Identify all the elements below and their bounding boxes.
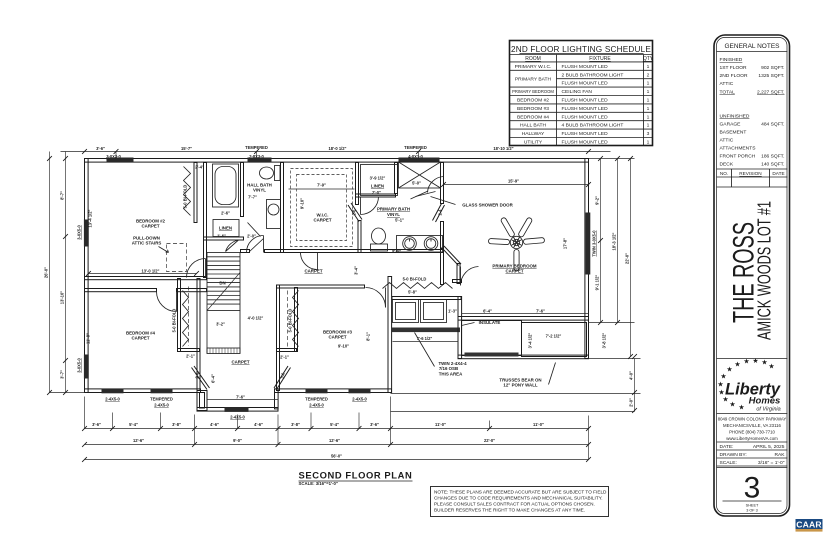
svg-text:BUILDER RESERVES THE RIGHT TO: BUILDER RESERVES THE RIGHT TO MAKE CHANG…: [434, 508, 585, 513]
svg-text:CARPET: CARPET: [231, 360, 249, 365]
svg-text:DATE: DATE: [772, 171, 784, 176]
svg-text:2ND FLOOR LIGHTING SCHEDULE: 2ND FLOOR LIGHTING SCHEDULE: [511, 45, 651, 54]
svg-text:FLUSH MOUNT LED: FLUSH MOUNT LED: [562, 98, 609, 104]
svg-text:18'-0 1/2": 18'-0 1/2": [329, 146, 347, 151]
svg-text:2-4X5-0: 2-4X5-0: [154, 403, 169, 408]
svg-text:3'-9 1/2": 3'-9 1/2": [370, 176, 386, 181]
svg-text:11'-0": 11'-0": [435, 422, 446, 427]
svg-text:SECOND FLOOR PLAN: SECOND FLOOR PLAN: [299, 470, 413, 481]
svg-text:RAK: RAK: [774, 452, 785, 458]
svg-text:7'-6": 7'-6": [236, 395, 245, 400]
svg-text:★: ★: [718, 389, 724, 397]
svg-text:CAAR: CAAR: [796, 520, 822, 530]
svg-text:6'-4": 6'-4": [211, 374, 216, 383]
svg-text:CARPET: CARPET: [328, 335, 346, 340]
svg-text:4'-6": 4'-6": [254, 422, 263, 427]
svg-text:9'-0": 9'-0": [233, 438, 242, 443]
svg-text:2 BULB BATHROOM LIGHT: 2 BULB BATHROOM LIGHT: [562, 72, 624, 78]
svg-text:11'-0": 11'-0": [533, 422, 544, 427]
svg-text:DATE:: DATE:: [720, 444, 734, 450]
svg-text:2,227 SQFT.: 2,227 SQFT.: [757, 90, 784, 96]
svg-text:3-0X5-0: 3-0X5-0: [77, 358, 82, 373]
svg-text:2'-0": 2'-0": [629, 398, 634, 407]
svg-text:AMICK WOODS LOT #1: AMICK WOODS LOT #1: [754, 201, 775, 340]
svg-text:1: 1: [647, 123, 650, 129]
svg-text:13'-10": 13'-10": [60, 291, 65, 304]
svg-text:902 SQFT.: 902 SQFT.: [761, 65, 784, 71]
svg-text:★: ★: [743, 358, 749, 366]
svg-text:ATTIC: ATTIC: [720, 138, 734, 144]
svg-text:7/16 OSB: 7/16 OSB: [439, 366, 458, 371]
svg-text:9'-10": 9'-10": [300, 198, 305, 209]
svg-text:11'-8": 11'-8": [86, 333, 91, 344]
svg-text:5'-4": 5'-4": [330, 422, 339, 427]
svg-text:3'-8": 3'-8": [172, 422, 181, 427]
svg-text:FLUSH MOUNT LED: FLUSH MOUNT LED: [562, 131, 609, 137]
svg-text:GARAGE: GARAGE: [720, 122, 742, 128]
svg-text:3: 3: [744, 472, 761, 505]
svg-text:13'-4 1/2": 13'-4 1/2": [88, 209, 93, 227]
svg-text:CARPET: CARPET: [141, 224, 159, 229]
svg-text:INSULATE: INSULATE: [479, 320, 501, 325]
svg-text:TWIN 3-0X5-0: TWIN 3-0X5-0: [592, 230, 597, 257]
svg-text:VINYL: VINYL: [253, 188, 266, 193]
svg-text:1: 1: [647, 64, 650, 70]
svg-text:2'-0": 2'-0": [372, 190, 381, 195]
svg-text:4'-0": 4'-0": [629, 371, 634, 380]
svg-text:9'-10": 9'-10": [338, 344, 349, 349]
svg-text:56'-0": 56'-0": [331, 454, 342, 459]
svg-text:2-6: 2-6: [195, 372, 200, 379]
svg-text:2-4X5-0: 2-4X5-0: [352, 397, 367, 402]
svg-text:DRAWN BY:: DRAWN BY:: [720, 452, 747, 458]
svg-text:2-4: 2-4: [438, 209, 443, 216]
svg-text:5-0 BI-FOLD: 5-0 BI-FOLD: [403, 277, 427, 282]
svg-text:5-0 BI-FOLD: 5-0 BI-FOLD: [288, 309, 293, 333]
svg-text:5'-4": 5'-4": [129, 422, 138, 427]
svg-text:ATTIC STAIRS: ATTIC STAIRS: [132, 241, 162, 246]
svg-text:BEDROOM #3: BEDROOM #3: [517, 106, 549, 112]
svg-text:1ST FLOOR: 1ST FLOOR: [720, 65, 748, 71]
svg-text:GLASS SHOWER DOOR: GLASS SHOWER DOOR: [462, 203, 513, 208]
svg-text:8049 CROWN COLONY PARKWAY: 8049 CROWN COLONY PARKWAY: [718, 417, 787, 422]
svg-text:3/16" = 1'-0": 3/16" = 1'-0": [758, 460, 785, 466]
svg-text:VINYL: VINYL: [387, 212, 400, 217]
svg-text:18'-10 1/2": 18'-10 1/2": [493, 146, 513, 151]
svg-text:UNFINISHED: UNFINISHED: [720, 114, 750, 120]
svg-text:4-0X1-0: 4-0X1-0: [408, 154, 423, 159]
svg-text:ATTIC: ATTIC: [720, 81, 734, 87]
svg-text:NOTE: THESE PLANS ARE DEEMED A: NOTE: THESE PLANS ARE DEEMED ACCURATE BU…: [434, 490, 607, 495]
svg-text:ATTACHMENTS: ATTACHMENTS: [720, 146, 757, 152]
svg-text:1325 SQFT.: 1325 SQFT.: [758, 73, 784, 79]
svg-text:22'-0": 22'-0": [484, 438, 495, 443]
svg-text:BEDROOM #2: BEDROOM #2: [517, 98, 549, 104]
svg-text:★: ★: [717, 381, 723, 389]
svg-text:9'-2": 9'-2": [595, 196, 600, 205]
svg-text:8'-0": 8'-0": [392, 249, 401, 254]
svg-text:FINISHED: FINISHED: [720, 57, 743, 63]
svg-text:DN: DN: [219, 281, 225, 286]
svg-text:MECHANICSVILLE, VA 23116: MECHANICSVILLE, VA 23116: [723, 423, 781, 428]
svg-text:QTY: QTY: [643, 56, 654, 62]
svg-text:FLUSH MOUNT LED: FLUSH MOUNT LED: [562, 106, 609, 112]
svg-text:HALLWAY: HALLWAY: [522, 131, 545, 137]
svg-text:3'-8": 3'-8": [291, 422, 300, 427]
svg-text:3-0X3-0: 3-0X3-0: [106, 154, 121, 159]
svg-text:DECK: DECK: [720, 162, 734, 168]
svg-text:3'-4 1/2": 3'-4 1/2": [528, 333, 533, 349]
svg-text:3'-7": 3'-7": [60, 370, 65, 379]
svg-text:5'-0": 5'-0": [412, 181, 421, 186]
svg-text:3'-6": 3'-6": [370, 422, 379, 427]
svg-text:2: 2: [647, 72, 650, 78]
svg-text:2-6: 2-6: [281, 372, 286, 379]
svg-text:12'-6": 12'-6": [329, 438, 340, 443]
svg-text:TEMPERED: TEMPERED: [245, 145, 268, 150]
svg-text:5'-1": 5'-1": [395, 218, 404, 223]
svg-text:15'-7": 15'-7": [181, 146, 192, 151]
svg-text:TOTAL: TOTAL: [720, 90, 736, 96]
svg-text:3: 3: [647, 131, 650, 137]
svg-text:CHANGES DUE TO CODE REQUIREMEN: CHANGES DUE TO CODE REQUIREMENTS AND MEC…: [434, 496, 603, 501]
svg-text:2-4X5-0: 2-4X5-0: [105, 397, 120, 402]
svg-text:of Virginia: of Virginia: [756, 407, 780, 413]
svg-text:2'-4": 2'-4": [195, 165, 204, 170]
svg-text:FLUSH MOUNT LED: FLUSH MOUNT LED: [562, 81, 609, 87]
svg-text:3'-4": 3'-4": [354, 266, 359, 275]
svg-text:THIS AREA: THIS AREA: [439, 371, 463, 376]
svg-text:140 SQFT.: 140 SQFT.: [761, 162, 784, 168]
svg-text:2'-1": 2'-1": [186, 354, 195, 359]
svg-text:1: 1: [647, 89, 650, 95]
svg-text:REVISION: REVISION: [739, 171, 761, 176]
svg-text:PHONE (804) 730-7710: PHONE (804) 730-7710: [729, 430, 775, 435]
svg-text:18'-3 1/2": 18'-3 1/2": [612, 232, 617, 250]
svg-text:★: ★: [726, 366, 732, 374]
svg-text:2ND FLOOR: 2ND FLOOR: [720, 73, 748, 79]
svg-text:1: 1: [647, 114, 650, 120]
svg-text:3'-8 1/2": 3'-8 1/2": [602, 333, 607, 349]
svg-text:ROOM: ROOM: [525, 56, 541, 62]
svg-text:CARPET: CARPET: [304, 269, 322, 274]
svg-text:8'-1": 8'-1": [366, 332, 371, 341]
svg-text:PLEASE CONSULT SALES CONTRACT: PLEASE CONSULT SALES CONTRACT FOR ACTUAL…: [434, 502, 595, 507]
svg-text:PRIMARY BATH: PRIMARY BATH: [377, 207, 410, 212]
svg-text:1'-3": 1'-3": [448, 309, 457, 314]
svg-text:UTILITY: UTILITY: [524, 140, 543, 146]
svg-text:186 SQFT.: 186 SQFT.: [761, 154, 784, 160]
svg-text:FLUSH MOUNT LED: FLUSH MOUNT LED: [562, 114, 609, 120]
svg-text:SCALE: 3/16"=1'-0": SCALE: 3/16"=1'-0": [299, 481, 338, 486]
svg-text:SCALE:: SCALE:: [720, 460, 737, 466]
svg-text:3'-6": 3'-6": [92, 422, 101, 427]
svg-text:7'-6": 7'-6": [536, 309, 545, 314]
svg-text:7'-7": 7'-7": [248, 195, 257, 200]
svg-text:LINEN: LINEN: [219, 226, 232, 231]
svg-text:TEMPERED: TEMPERED: [404, 145, 427, 150]
svg-text:PRIMARY BEDROOM: PRIMARY BEDROOM: [512, 89, 554, 94]
svg-text:4'-6": 4'-6": [210, 422, 219, 427]
svg-text:1: 1: [647, 98, 650, 104]
svg-text:13'-0 1/2": 13'-0 1/2": [142, 269, 160, 274]
svg-text:7'-9": 7'-9": [317, 183, 326, 188]
svg-text:26'-0": 26'-0": [44, 267, 49, 278]
svg-text:CARPET: CARPET: [313, 218, 331, 223]
svg-text:www.LibertyHomesVA.com: www.LibertyHomesVA.com: [726, 436, 778, 441]
svg-text:BASEMENT: BASEMENT: [720, 130, 747, 136]
svg-text:2'-1": 2'-1": [280, 355, 289, 360]
svg-text:7'-2 1/2": 7'-2 1/2": [546, 334, 562, 339]
svg-text:1: 1: [647, 81, 650, 87]
svg-text:4 BULB BATHROOM LIGHT: 4 BULB BATHROOM LIGHT: [562, 123, 624, 129]
svg-text:2-4X5-0: 2-4X5-0: [309, 403, 324, 408]
svg-text:9'-1 1/2": 9'-1 1/2": [595, 275, 600, 291]
svg-text:Homes: Homes: [749, 396, 781, 407]
svg-text:NO.: NO.: [720, 171, 728, 176]
svg-text:HALL BATH: HALL BATH: [520, 123, 547, 129]
svg-text:FLUSH MOUNT LED: FLUSH MOUNT LED: [562, 64, 609, 70]
svg-text:PRIMARY W.I.C.: PRIMARY W.I.C.: [515, 64, 552, 70]
svg-text:APRIL 5, 2025: APRIL 5, 2025: [753, 444, 785, 450]
svg-text:2'-0": 2'-0": [247, 234, 256, 239]
svg-text:GENERAL NOTES: GENERAL NOTES: [724, 43, 780, 50]
svg-text:7'-6 1/2": 7'-6 1/2": [417, 336, 433, 341]
svg-text:★: ★: [734, 361, 740, 369]
svg-text:5'-8": 5'-8": [408, 290, 417, 295]
svg-text:3 OF 3: 3 OF 3: [746, 508, 758, 512]
svg-text:1: 1: [647, 140, 650, 146]
svg-text:BEDROOM #4: BEDROOM #4: [517, 114, 549, 120]
svg-text:22'-0": 22'-0": [625, 253, 630, 264]
svg-text:SHEET: SHEET: [746, 504, 759, 508]
svg-text:★: ★: [738, 404, 744, 412]
svg-text:2-6: 2-6: [352, 209, 357, 216]
svg-text:★: ★: [768, 363, 774, 371]
svg-text:CARPET: CARPET: [505, 269, 523, 274]
svg-text:484 SQFT.: 484 SQFT.: [761, 122, 784, 128]
svg-text:CARPET: CARPET: [131, 336, 149, 341]
svg-text:★: ★: [729, 401, 735, 409]
svg-text:4'-0 1/2": 4'-0 1/2": [248, 316, 264, 321]
svg-text:FLUSH MOUNT LED: FLUSH MOUNT LED: [562, 140, 609, 146]
svg-text:★: ★: [752, 357, 758, 365]
svg-text:2-8X3-0: 2-8X3-0: [249, 154, 264, 159]
svg-text:1: 1: [647, 106, 650, 112]
svg-text:FRONT PORCH: FRONT PORCH: [720, 154, 756, 160]
svg-text:LINEN: LINEN: [371, 184, 384, 189]
svg-text:TEMPERED: TEMPERED: [150, 397, 173, 402]
svg-text:6'-4": 6'-4": [483, 309, 492, 314]
svg-text:1'-6": 1'-6": [217, 233, 226, 238]
svg-text:12'-6": 12'-6": [133, 438, 144, 443]
svg-text:5-0 BI-FOLD: 5-0 BI-FOLD: [183, 185, 188, 209]
svg-text:12" PONY WALL: 12" PONY WALL: [503, 383, 538, 388]
svg-text:3'-6": 3'-6": [96, 146, 105, 151]
svg-text:★: ★: [720, 373, 726, 381]
svg-text:PRIMARY BATH: PRIMARY BATH: [515, 77, 552, 83]
svg-text:8'-7": 8'-7": [60, 191, 65, 200]
svg-text:15'-9": 15'-9": [508, 179, 519, 184]
svg-text:FIXTURE: FIXTURE: [589, 56, 611, 62]
svg-text:3'-2": 3'-2": [216, 322, 225, 327]
svg-text:17'-8": 17'-8": [563, 238, 568, 249]
svg-text:3-0X5-0: 3-0X5-0: [77, 225, 82, 240]
svg-text:2'-6": 2'-6": [221, 211, 230, 216]
svg-text:★: ★: [761, 359, 767, 367]
svg-text:TEMPERED: TEMPERED: [305, 397, 328, 402]
svg-text:CEILING FAN: CEILING FAN: [562, 89, 593, 95]
svg-text:2-4X5-0: 2-4X5-0: [230, 415, 245, 420]
svg-text:5-0 BI-FOLD: 5-0 BI-FOLD: [172, 309, 177, 333]
